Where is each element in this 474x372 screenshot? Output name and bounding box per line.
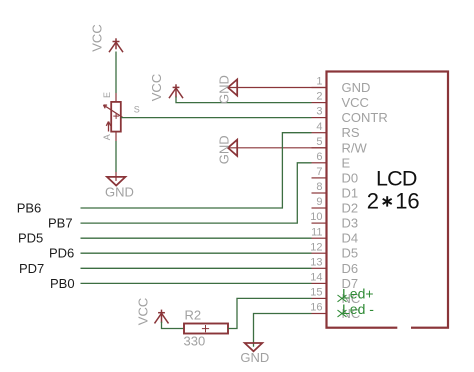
svg-text:VCC: VCC <box>136 298 151 325</box>
svg-text:14: 14 <box>310 272 322 284</box>
supply VCC arrow (R2 net) <box>155 310 169 324</box>
svg-text:R/W: R/W <box>342 140 368 155</box>
pin 11 stub <box>312 237 327 239</box>
svg-text:Led+: Led+ <box>342 286 374 302</box>
svg-text:PD7: PD7 <box>19 261 44 276</box>
svg-text:Led -: Led - <box>342 301 374 317</box>
svg-text:PB0: PB0 <box>50 276 75 291</box>
ground symbol (pin 1 net, sideways) <box>228 79 237 95</box>
svg-text:CONTR: CONTR <box>342 110 388 125</box>
ground symbol (pin 16 net) <box>245 343 263 351</box>
wire PD7 to LCD D6 (pin 13) <box>81 267 312 269</box>
svg-text:E: E <box>102 92 112 98</box>
svg-text:A: A <box>102 134 112 140</box>
svg-text:E: E <box>342 155 351 170</box>
svg-text:PD5: PD5 <box>18 231 43 246</box>
svg-text:GND: GND <box>217 75 232 104</box>
pin 6 stub <box>312 162 327 164</box>
svg-text:5: 5 <box>316 136 322 148</box>
svg-text:D3: D3 <box>342 216 359 231</box>
svg-text:4: 4 <box>316 121 322 133</box>
pin 8 stub <box>312 192 327 194</box>
wire VCC to LCD VCC (pin 2) <box>176 97 312 103</box>
R2 origin cross <box>202 325 209 332</box>
svg-text:16: 16 <box>310 302 322 314</box>
pin 4 stub <box>312 132 327 134</box>
svg-text:D6: D6 <box>342 261 359 276</box>
svg-text:8: 8 <box>316 181 322 193</box>
svg-text:LCD: LCD <box>376 167 417 191</box>
svg-text:11: 11 <box>311 226 322 238</box>
Led- cross mark <box>338 310 347 317</box>
svg-text:9: 9 <box>316 196 322 208</box>
svg-text:D2: D2 <box>342 201 359 216</box>
pin 13 stub <box>312 267 327 269</box>
wire PB7 to LCD E (pin 6) <box>81 163 312 223</box>
svg-text:6: 6 <box>316 151 322 163</box>
svg-text:PB6: PB6 <box>17 201 42 216</box>
trimmer E pin stub <box>115 93 117 102</box>
svg-text:VCC: VCC <box>342 95 369 110</box>
wire VCC to R2 <box>162 322 185 329</box>
pin 2 stub <box>312 102 327 104</box>
svg-text:GND: GND <box>217 135 232 164</box>
trimmer A pin stub <box>115 132 117 142</box>
pin 9 stub <box>312 207 327 209</box>
svg-text:VCC: VCC <box>149 74 164 101</box>
ground symbol (below trimmer) <box>107 177 125 186</box>
pin 15 stub <box>312 297 327 299</box>
svg-text:2: 2 <box>316 91 322 103</box>
pin 16 stub <box>312 313 327 315</box>
trimmer origin cross <box>113 113 119 119</box>
wire VCC to trimmer E pin <box>115 52 117 94</box>
wire GND to LCD pin 5 <box>229 147 327 149</box>
svg-text:2: 2 <box>367 189 379 214</box>
ground symbol (pin 5 net, sideways) <box>228 140 237 156</box>
svg-text:GND: GND <box>105 185 134 200</box>
pin 12 stub <box>312 252 327 254</box>
svg-text:VCC: VCC <box>90 24 105 51</box>
wire trimmer S to LCD CONTR (pin 3) <box>121 117 312 119</box>
wire LCD pin 16 to GND <box>254 314 312 347</box>
resistor R2 <box>184 324 228 334</box>
pin 5 stub <box>312 147 327 149</box>
wire trimmer A to GND <box>115 141 117 172</box>
wire PD6 to LCD D5 (pin 12) <box>81 252 312 254</box>
svg-text:D0: D0 <box>342 170 359 185</box>
trimmer adjust arrow <box>106 122 110 132</box>
svg-text:GND: GND <box>240 350 269 365</box>
svg-text:PD6: PD6 <box>49 246 74 261</box>
svg-text:PB7: PB7 <box>48 216 73 231</box>
pin 10 stub <box>312 222 327 224</box>
svg-text:330: 330 <box>184 334 206 349</box>
svg-text:12: 12 <box>310 241 322 253</box>
svg-text:RS: RS <box>342 125 360 140</box>
wire PB6 to LCD RS (pin 4) <box>81 133 312 208</box>
GND pin stub (below trimmer) <box>115 172 117 181</box>
wire R2 to LCD Led+ (pin 15) <box>228 298 312 328</box>
supply VCC arrow (pin 2 net) <box>169 84 183 98</box>
LCD connector body <box>327 72 449 328</box>
svg-text:13: 13 <box>310 256 322 268</box>
pin 3 stub <box>312 117 327 119</box>
LCD size asterisk <box>383 196 392 206</box>
gap in bottom border <box>397 326 411 330</box>
trimmer wiper arrow <box>104 105 123 118</box>
wire GND to LCD pin 1 <box>229 87 327 89</box>
svg-text:3: 3 <box>316 106 322 118</box>
svg-text:16: 16 <box>395 189 419 214</box>
svg-text:15: 15 <box>310 287 322 299</box>
svg-text:R2: R2 <box>185 308 202 323</box>
svg-text:10: 10 <box>310 211 322 223</box>
svg-text:1: 1 <box>316 76 322 88</box>
Led+ cross mark <box>338 295 347 302</box>
svg-text:D5: D5 <box>342 246 359 261</box>
pin 1 stub <box>312 87 327 89</box>
svg-text:7: 7 <box>316 166 322 178</box>
trimmer potentiometer body <box>111 102 121 132</box>
wire PD5 to LCD D4 (pin 11) <box>81 237 312 239</box>
svg-text:D4: D4 <box>342 231 359 246</box>
svg-text:GND: GND <box>342 80 371 95</box>
supply VCC arrow (top of trimmer) <box>109 38 123 52</box>
svg-text:D1: D1 <box>342 186 359 201</box>
svg-text:S: S <box>134 105 140 115</box>
wire PB0 to LCD D7 (pin 14) <box>81 282 312 284</box>
pin 14 stub <box>312 282 327 284</box>
pin 7 stub <box>312 177 327 179</box>
